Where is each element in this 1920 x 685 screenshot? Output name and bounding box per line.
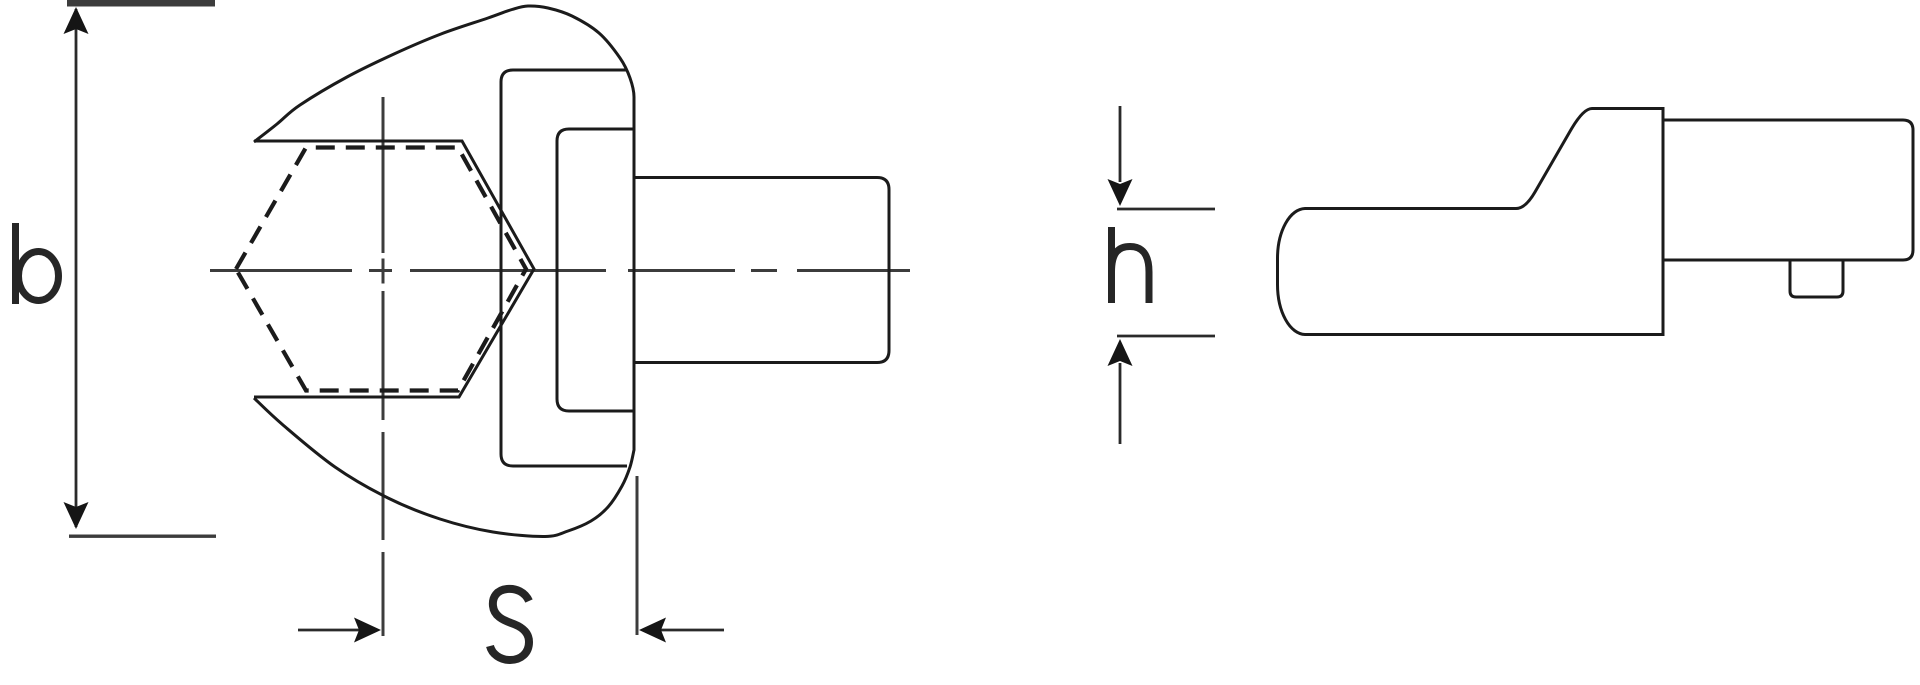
dimension b: bottom extension bar [69,535,216,538]
dimension h: bottom vertical line [1119,363,1122,444]
vertical centerline [382,97,385,636]
label S [490,589,529,660]
dimension h: top vertical line [1119,106,1122,182]
dimension h: bottom reference line [1117,335,1215,338]
dimension h: top reference line [1117,208,1215,211]
dimension S: left arrow line [298,629,360,632]
side view shank [1663,120,1913,260]
wrench head outline (egg shape) [254,6,634,537]
side view body outline [1278,109,1664,335]
dimension h: top arrowhead (points down) [1108,179,1133,206]
horizontal centerline [210,269,910,272]
label h [1112,227,1150,303]
dimension b: top arrowhead [64,7,89,34]
dimension S: right extension line [636,476,639,635]
dimension b: top extension bar [67,0,215,7]
label b [16,223,59,304]
dimension b: bottom arrowhead [64,502,89,529]
outer insert opening (rounded rect) [501,70,627,466]
jaw mouth (open end) [254,141,534,397]
dimension h: bottom arrowhead (points up) [1108,339,1133,366]
dimension S: left arrowhead (points right) [354,618,381,643]
inner insert opening (rounded rect) [557,129,634,411]
dimension b: vertical dimension line [75,9,78,527]
dimension S: right arrow line [660,629,724,632]
hexagon (nut, dashed) [236,148,526,391]
shank (front view rectangle) [634,178,889,363]
dimension S: right arrowhead (points left) [639,618,666,643]
side view locking pin tab [1790,260,1843,297]
